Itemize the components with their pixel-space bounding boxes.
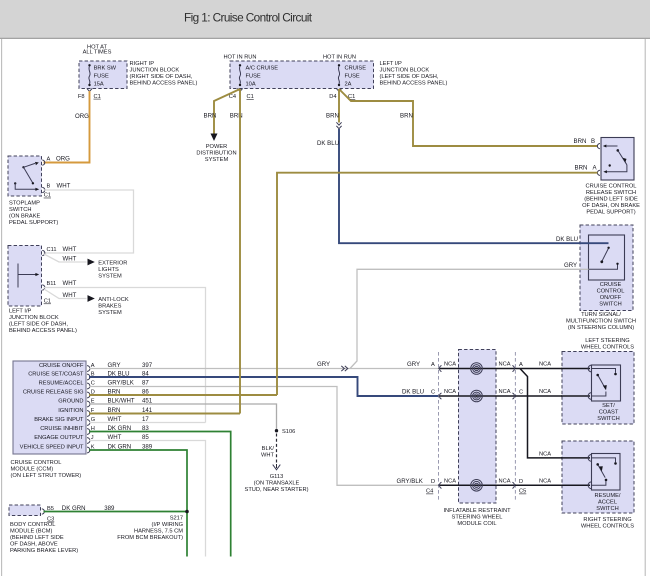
labels BRN B at release switch [574,138,596,145]
connector C5 dashed line [514,352,516,502]
svg-text:JUNCTION BLOCK: JUNCTION BLOCK [130,67,180,73]
labels pin B WHT [47,182,71,189]
svg-text:LEFT STEERING: LEFT STEERING [585,338,629,344]
svg-text:NCA: NCA [444,362,456,368]
label CRUISE CONTROL MODULE (CCM) [11,460,82,479]
svg-text:C11: C11 [47,247,57,253]
splice S106 [275,429,278,432]
stoplamp switch box [8,156,42,196]
labels row A at coil: GRY A NCA / A NCA [407,361,551,368]
wire BRN 86 (release switch A to CCM pin D) [277,173,598,395]
label LEFT STEERING WHEEL CONTROLS [581,338,634,351]
wire GRY 397 row A (CCM A to coil connector C4) [89,368,439,370]
left steering wheel controls outer box [562,352,634,425]
label RIGHT IP JUNCTION BLOCK [130,61,198,87]
arrow to power distribution system [211,134,218,142]
label INFLATABLE RESTRAINT STEERING WHEEL MODULE COIL [443,508,511,527]
stoplamp switch contacts [14,162,39,191]
svg-text:OF DASH, ON BRAKE: OF DASH, ON BRAKE [582,203,640,209]
svg-text:BRN: BRN [400,113,413,120]
svg-text:B11: B11 [47,281,57,287]
svg-text:C4: C4 [229,94,236,100]
branch wire (pin A junction to resume/accel switch) [520,369,589,458]
labels row C at coil: DK BLU C NCA / C NCA [402,389,551,396]
connector arcs at C5 line [512,365,514,488]
svg-text:MODULE COIL: MODULE COIL [457,521,496,527]
CCM pin C RESUME/ACCEL (GRY/BLK 87) [39,379,150,389]
label HOT IN RUN (CRUISE FUSE) [323,54,356,60]
set/coast pin arcs [588,365,591,399]
wire DK BLU 84 row B (CCM B to coil pin C) [89,377,439,396]
svg-text:LEFT I/P: LEFT I/P [9,309,32,315]
label CRUISE CONTROL RELEASE SWITCH [582,184,640,216]
svg-text:BODY CONTROL: BODY CONTROL [10,522,55,528]
svg-text:ORG: ORG [75,113,89,120]
svg-text:(ON LEFT STRUT TOWER): (ON LEFT STRUT TOWER) [11,473,82,479]
svg-text:C: C [91,381,95,387]
svg-text:FROM BCM BREAKOUT): FROM BCM BREAKOUT) [117,535,183,541]
coil D [471,480,483,492]
svg-text:F8: F8 [78,94,85,100]
wire WHT 17 (B11 to CCM pin G) [44,288,206,423]
release switch contacts [603,145,627,174]
svg-text:CRUISE CONTROL: CRUISE CONTROL [586,184,637,190]
wire WHT branch to anti-lock brakes [44,289,87,299]
svg-text:D: D [431,479,435,485]
wire BLK/WHT dashed to ground [276,434,278,465]
CCM pin E GROUND (BLK/WHT 451) [58,397,153,407]
svg-text:RIGHT IP: RIGHT IP [130,61,155,67]
svg-text:A: A [593,165,598,172]
svg-text:NCA: NCA [499,478,511,484]
svg-text:WHT: WHT [57,182,71,189]
svg-text:(LEFT SIDE OF DASH,: (LEFT SIDE OF DASH, [380,74,439,80]
wire BRN 86 row D (CCM D horizontal) [89,394,277,396]
svg-text:DK BLU: DK BLU [317,140,339,147]
svg-text:STUD, NEAR STARTER): STUD, NEAR STARTER) [245,487,309,493]
wire DK BLU (fuse to on/off switch) [339,129,589,243]
CCM pin F IGNITION (BRN 141) [58,407,153,417]
labels pin B11 WHT [47,280,77,287]
CCM pin H CRUISE INHIBIT (DK GRN 83) [40,425,149,435]
svg-text:ACCEL: ACCEL [598,500,617,506]
svg-text:A/C CRUISE: A/C CRUISE [246,66,279,72]
junction block pin arcs [42,250,45,290]
svg-text:15A: 15A [94,82,104,88]
svg-text:CRUISE RELEASE SIG: CRUISE RELEASE SIG [23,390,84,396]
on/off switch contacts [579,243,619,269]
svg-text:FUSE: FUSE [246,74,261,80]
svg-text:HOT IN RUN: HOT IN RUN [223,54,256,60]
svg-text:GROUND: GROUND [58,399,83,405]
arrow to exterior lights system [88,259,95,266]
CCM pin G BRAKE SIG INPUT (WHT 17) [34,416,149,426]
svg-text:(BEHIND LEFT SIDE: (BEHIND LEFT SIDE [584,197,638,203]
stoplamp pin arcs [42,160,45,193]
right steering wheel controls outer box [562,441,634,513]
svg-text:ANTI-LOCK: ANTI-LOCK [98,297,129,303]
svg-text:C1: C1 [247,94,254,100]
svg-text:B: B [591,138,595,145]
label LEFT I/P JUNCTION BLOCK [380,61,448,87]
svg-text:POWER: POWER [206,144,228,150]
wire GRY/BLK 87 row C (CCM C to coil pin D) [89,387,439,486]
wire WHT (stoplamp B to junction block C11) [44,190,134,253]
label ANTI-LOCK BRAKES SYSTEM [98,297,129,316]
svg-text:CONTROL: CONTROL [597,289,625,295]
svg-text:ALL TIMES: ALL TIMES [83,50,112,56]
connector C4 dashed line [438,352,440,502]
svg-text:STOPLAMP: STOPLAMP [9,201,40,207]
svg-text:C1: C1 [44,193,51,199]
wire BRN 141 row F (CCM F horizontal) [89,413,240,415]
left IP junction block box [8,246,42,307]
wire DK GRN 389 (BCM B5 to splice S217) [44,511,188,513]
svg-text:87: 87 [142,379,149,386]
set/coast switch contacts [592,369,617,397]
svg-text:NCA: NCA [444,389,456,395]
svg-text:SWITCH: SWITCH [597,416,619,422]
svg-text:RELEASE SWITCH: RELEASE SWITCH [586,190,636,196]
inline connector on GRY row A [341,366,348,371]
svg-text:(LEFT SIDE OF DASH,: (LEFT SIDE OF DASH, [9,322,68,328]
svg-text:BRAKES: BRAKES [98,303,121,309]
svg-text:S217: S217 [170,516,183,522]
svg-text:NCA: NCA [539,451,551,457]
label HOT IN RUN (A/C CRUISE FUSE) [223,54,256,60]
svg-text:SWITCH: SWITCH [596,506,618,512]
svg-text:WHT: WHT [261,453,274,459]
connector arcs at C4 line [439,365,441,488]
label CRUISE CONTROL ON/OFF SWITCH [597,282,625,308]
svg-text:(RIGHT SIDE OF DASH,: (RIGHT SIDE OF DASH, [130,74,193,80]
svg-text:IGNITION: IGNITION [58,408,83,414]
label SET/ COAST SWITCH [597,403,619,422]
svg-text:BRK SW: BRK SW [94,66,117,72]
svg-text:WHT: WHT [63,246,77,253]
junction block F8 box (Right IP) [79,61,127,89]
svg-text:10A: 10A [246,82,256,88]
svg-text:NCA: NCA [499,362,511,368]
wire BRN 141 vertical (fuse C1 to CCM pin F) [239,89,241,414]
svg-text:NCA: NCA [444,478,456,484]
svg-text:SET/: SET/ [602,403,615,409]
svg-text:MODULE (BCM): MODULE (BCM) [10,528,52,534]
svg-text:WHT: WHT [63,292,77,299]
svg-text:HOT IN RUN: HOT IN RUN [323,54,356,60]
resume/accel switch inner box [592,454,621,491]
svg-text:DK BLU: DK BLU [402,389,424,396]
svg-text:MODULE (CCM): MODULE (CCM) [11,466,54,472]
wire GRY (on/off switch to junction on row A) [350,269,618,368]
arrow to anti-lock brakes system [88,295,95,302]
svg-text:PEDAL SUPPORT): PEDAL SUPPORT) [586,210,635,216]
svg-text:OF DASH, ABOVE: OF DASH, ABOVE [10,541,58,547]
svg-text:CRUISE SET/COAST: CRUISE SET/COAST [28,372,84,378]
svg-text:SWITCH: SWITCH [9,207,31,213]
svg-text:ENGAGE OUTPUT: ENGAGE OUTPUT [34,435,84,441]
svg-text:BRN: BRN [326,113,339,120]
cruise control release switch box [601,138,634,181]
svg-text:D4: D4 [329,94,336,100]
pin C4 / connector C1 labels [229,94,254,100]
labels pin C11 WHT [47,246,77,253]
svg-text:EXTERIOR: EXTERIOR [98,260,127,266]
fuse BRK SW FUSE 15A [88,64,116,87]
svg-text:ORG: ORG [56,156,70,163]
label S217 (I/P WIRING HARNESS, 7.5 CM FROM BCM BREAKOUT) [117,516,183,542]
svg-text:C1: C1 [94,94,101,100]
svg-text:(ON TRANSAXLE: (ON TRANSAXLE [254,480,300,486]
svg-text:CRUISE CONTROL: CRUISE CONTROL [11,460,62,466]
svg-text:NCA: NCA [539,389,551,395]
ground G113 symbol [273,464,281,470]
svg-text:G113: G113 [270,474,284,480]
svg-text:RESUME/ACCEL: RESUME/ACCEL [39,381,84,387]
BCM pin arc [42,509,45,514]
svg-text:A: A [47,157,51,163]
svg-text:NCA: NCA [539,478,551,484]
svg-text:COAST: COAST [599,410,619,416]
svg-text:BRN: BRN [204,113,217,120]
svg-text:SYSTEM: SYSTEM [205,157,229,163]
coil C [471,390,483,402]
label G113 (ON TRANSAXLE STUD, NEAR STARTER) [245,474,309,493]
inline connector chevrons [336,122,341,128]
cruise control on/off switch inner box [589,235,625,280]
fuse CRUISE FUSE 2A [338,64,366,87]
CCM pin A CRUISE ON/OFF (GRY 397) [39,362,153,372]
pin D4 / connector C1 labels [329,94,355,100]
set/coast switch inner box [592,365,621,401]
svg-text:DISTRIBUTION: DISTRIBUTION [196,150,236,156]
wire BRN to power distribution [214,89,240,134]
svg-text:2A: 2A [345,82,352,88]
release switch pin arcs [597,144,600,176]
svg-text:FUSE: FUSE [345,74,360,80]
labels row D at coil: GRY/BLK D C4 NCA / D C5 NCA [397,478,552,495]
svg-text:(ON BRAKE: (ON BRAKE [9,214,40,220]
title bar [0,0,650,38]
svg-text:SYSTEM: SYSTEM [98,273,122,279]
svg-text:NCA: NCA [539,362,551,368]
wire ORG from F8 to stoplamp switch A [44,91,90,163]
svg-text:CRUISE: CRUISE [600,282,622,288]
wire BLK/WHT 451 row E (CCM E to splice S106) [89,404,277,430]
resume/accel switch contacts [592,458,617,485]
svg-text:PEDAL SUPPORT): PEDAL SUPPORT) [9,220,58,226]
splice S217 [185,510,189,514]
svg-text:RESUME/: RESUME/ [595,493,621,499]
svg-text:FUSE: FUSE [94,74,109,80]
wire BRN (fuse C1 to release switch pin B) [339,89,598,146]
svg-text:JUNCTION BLOCK: JUNCTION BLOCK [9,315,59,321]
label HOT AT ALL TIMES [83,45,112,56]
wire stubs into set/coast switch [561,369,590,397]
svg-text:C: C [431,390,435,396]
svg-text:CRUISE ON/OFF: CRUISE ON/OFF [39,363,84,369]
label RESUME/ ACCEL SWITCH [595,493,621,512]
junction block bus symbol [18,264,39,288]
turn signal / multifunction switch outer box [580,225,633,311]
svg-text:WHT: WHT [63,255,77,262]
svg-text:WHEEL CONTROLS: WHEEL CONTROLS [581,344,634,350]
svg-text:STEERING WHEEL: STEERING WHEEL [452,514,503,520]
svg-text:A: A [431,362,435,368]
svg-text:RIGHT STEERING: RIGHT STEERING [583,517,631,523]
svg-text:GRY: GRY [317,361,330,368]
svg-text:CRUISE: CRUISE [345,66,367,72]
svg-text:C4: C4 [426,489,433,495]
label BLK/ WHT [261,446,274,459]
body control module (BCM) box [9,505,41,516]
pin F8 / connector C1 labels [78,94,101,100]
svg-text:BEHIND ACCESS PANEL): BEHIND ACCESS PANEL) [9,328,77,334]
svg-text:GRY: GRY [564,262,577,269]
svg-text:ON/OFF: ON/OFF [600,295,622,301]
svg-text:S106: S106 [282,429,295,435]
svg-text:HARNESS, 7.5 CM: HARNESS, 7.5 CM [134,529,183,535]
wire DK GRN 83 row H (CCM H, cruise inhibit) [89,432,231,557]
wire stubs into resume/accel switch [561,458,590,485]
svg-text:C1: C1 [44,299,51,305]
resume/accel pin arcs [588,454,591,488]
svg-text:A: A [519,362,523,368]
svg-text:GRY: GRY [407,361,420,368]
svg-text:VEHICLE SPEED INPUT: VEHICLE SPEED INPUT [20,445,84,451]
svg-text:BRN: BRN [574,138,587,145]
svg-text:DK BLU: DK BLU [556,236,578,243]
label LEFT I/P JUNCTION BLOCK [9,309,77,335]
coil A [471,363,483,375]
svg-text:PARKING BRAKE LEVER): PARKING BRAKE LEVER) [10,548,78,554]
inflatable restraint steering wheel module coil box [459,350,497,504]
fuse A/C CRUISE FUSE 10A [239,64,278,87]
svg-text:BEHIND ACCESS PANEL): BEHIND ACCESS PANEL) [130,80,198,86]
black wire row A through coil (to set/coast switch) [439,368,589,370]
wire WHT 17 row G (CCM G horizontal) [89,422,206,424]
svg-text:LIGHTS: LIGHTS [98,267,119,273]
connector carets under fuses [237,88,341,91]
svg-text:BRAKE SIG INPUT: BRAKE SIG INPUT [34,417,84,423]
svg-text:B: B [47,183,51,189]
svg-text:BLK/: BLK/ [262,446,275,452]
svg-text:Fig 1: Cruise Control Circuit: Fig 1: Cruise Control Circuit [184,10,313,24]
wire BRN from fuse D4 [338,89,340,123]
svg-text:JUNCTION BLOCK: JUNCTION BLOCK [380,67,430,73]
label RIGHT STEERING WHEEL CONTROLS [581,517,634,530]
svg-text:WHT: WHT [63,280,77,287]
black wire row C through coil (to set/coast switch) [439,395,589,397]
CCM pin J ENGAGE OUTPUT (WHT 85) [34,434,149,444]
label BODY CONTROL MODULE (BCM) [10,522,78,554]
label TURN SIGNAL/ MULTIFUNCTION SWITCH [566,312,636,331]
svg-text:SYSTEM: SYSTEM [98,310,122,316]
svg-text:GRY/BLK: GRY/BLK [108,379,134,386]
wire DK GRN 389 row K (CCM K, vehicle speed input) [89,450,187,557]
svg-text:NCA: NCA [499,389,511,395]
svg-text:LEFT I/P: LEFT I/P [380,61,403,67]
svg-text:D: D [519,479,523,485]
svg-text:GRY/BLK: GRY/BLK [397,478,423,485]
wire WHT branch to exterior lights [44,254,87,262]
svg-text:BEHIND ACCESS PANEL): BEHIND ACCESS PANEL) [380,80,448,86]
black wire row D through coil (to resume/accel switch) [439,484,589,486]
svg-text:(IN STEERING COLUMN): (IN STEERING COLUMN) [568,325,634,331]
svg-text:SWITCH: SWITCH [599,302,621,308]
labels pin B5 DK GRN 389 [47,505,115,512]
svg-text:(I/P WIRING: (I/P WIRING [152,522,184,528]
labels BRN A at release switch [575,165,598,172]
svg-text:CRUISE INHIBIT: CRUISE INHIBIT [40,426,84,432]
svg-text:C5: C5 [519,489,526,495]
svg-text:C: C [519,390,523,396]
CCM pin B CRUISE SET/COAST (DK BLU 84) [28,370,149,380]
connector caret under F8 [87,88,92,91]
label STOPLAMP SWITCH [9,201,58,227]
cruise control module (CCM) box [13,361,86,454]
CCM pin D CRUISE RELEASE SIG (BRN 86) [23,388,150,398]
svg-text:TURN SIGNAL/: TURN SIGNAL/ [581,312,621,318]
svg-text:INFLATABLE RESTRAINT: INFLATABLE RESTRAINT [443,508,511,514]
label POWER DISTRIBUTION SYSTEM [196,144,236,163]
svg-text:MULTIFUNCTION SWITCH: MULTIFUNCTION SWITCH [566,319,636,325]
svg-text:(BEHIND LEFT SIDE: (BEHIND LEFT SIDE [10,535,64,541]
wire WHT 85 row J (CCM J, engage output) [89,441,206,557]
label EXTERIOR LIGHTS SYSTEM [98,260,127,279]
svg-text:BRN: BRN [575,165,588,172]
junction block box (Left IP, two fuses) [230,61,374,89]
CCM pin K VEHICLE SPEED INPUT (DK GRN 389) [20,443,153,453]
labels pin A ORG [47,156,71,163]
svg-text:WHEEL CONTROLS: WHEEL CONTROLS [581,524,634,530]
